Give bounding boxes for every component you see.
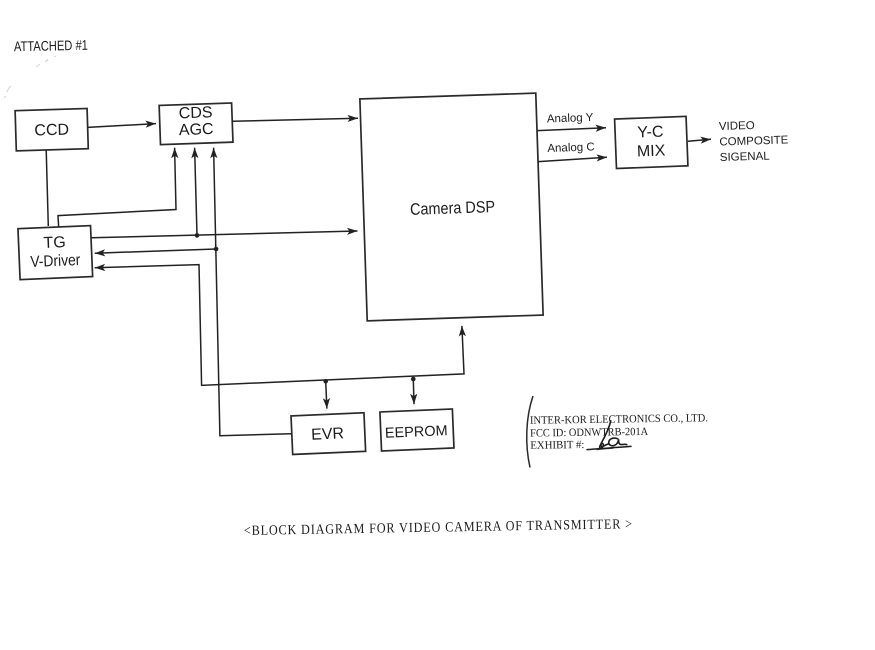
svg-text:Y-C: Y-C [637,124,664,142]
svg-text:INTER-KOR ELECTRONICS CO., LTD: INTER-KOR ELECTRONICS CO., LTD. [530,412,708,426]
svg-text:COMPOSITE: COMPOSITE [719,134,789,148]
pencil smudges [4,56,56,98]
svg-text:CCD: CCD [34,121,69,139]
block Y-C MIX [615,116,688,168]
block EEPROM [380,409,454,451]
wire bus to EVR [326,381,327,408]
svg-text:Analog C: Analog C [547,141,595,155]
block TG V-Driver [18,226,93,280]
svg-text:MIX: MIX [637,142,666,160]
brace (parenthesis) [527,396,533,468]
wire junction to TG (upper return) [95,249,216,253]
junction dot D [411,377,416,382]
svg-text:EVR: EVR [311,425,345,443]
wire CDS/AGC to Camera DSP [232,118,358,121]
wire Y-C MIX output [688,139,711,141]
wire TG return / bus to DSP [95,265,464,386]
svg-text:VIDEO: VIDEO [719,120,755,133]
handwritten exhibit number 2a [587,421,631,450]
svg-text:TG: TG [43,234,66,252]
svg-text:EXHIBIT #:: EXHIBIT #: [530,439,584,452]
junction dot C [323,379,328,384]
svg-text:SIGENAL: SIGENAL [720,150,771,163]
svg-text:AGC: AGC [179,121,214,139]
block EVR [291,413,366,455]
wire bus to EEPROM [412,379,415,404]
wire DSP to Y-C MIX (Analog Y) [538,128,607,131]
svg-text:CDS: CDS [178,104,212,122]
svg-text:Analog Y: Analog Y [547,112,594,126]
svg-text:<BLOCK DIAGRAM FOR VIDEO CAMER: <BLOCK DIAGRAM FOR VIDEO CAMERA OF TRANS… [244,517,633,539]
svg-text:FCC ID: ODNWTRB-201A: FCC ID: ODNWTRB-201A [530,426,648,440]
wire CCD to TG [46,150,48,226]
wire DSP to Y-C MIX (Analog C) [539,157,608,161]
block CDS AGC [159,103,233,145]
wire TG to Camera DSP [92,231,358,238]
label INTER-KOR ELECTRONICS block [530,412,709,451]
label VIDEO COMPOSITE SIGENAL [719,119,790,164]
block CCD [15,109,88,151]
svg-text:EEPROM: EEPROM [385,423,448,442]
wire CCD to CDS/AGC [88,124,157,128]
wire EVR up to CDS/AGC (right arrow) [214,148,291,436]
svg-text:ATTACHED #1: ATTACHED #1 [14,37,88,55]
svg-text:V-Driver: V-Driver [30,252,81,271]
svg-text:Camera DSP: Camera DSP [410,198,496,219]
block Camera DSP [360,93,543,321]
wire TG to CDS/AGC (left arrow) [58,148,176,227]
junction dot A [195,233,200,238]
junction dot B [214,247,219,252]
label ATTACHED #1 [14,37,88,55]
wire junction to CDS/AGC (middle arrow) [195,148,197,236]
